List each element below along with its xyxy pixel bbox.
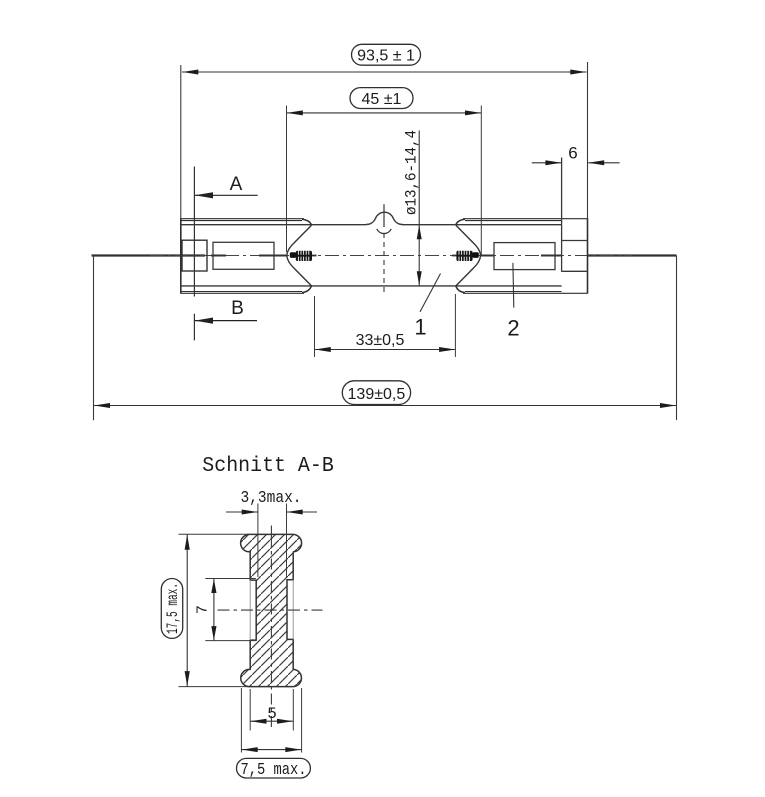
pump tip bump bbox=[366, 212, 403, 224]
svg-text:139±0,5: 139±0,5 bbox=[348, 386, 406, 403]
dim 45 ±1 bbox=[350, 88, 413, 109]
wire segment inner left 2 bbox=[259, 255, 287, 257]
svg-text:2: 2 bbox=[507, 316, 519, 341]
svg-text:ø13,6-14,4: ø13,6-14,4 bbox=[403, 130, 421, 215]
leader 1 bbox=[420, 274, 441, 312]
tube bottom edge bbox=[181, 285, 562, 287]
filament coil left bbox=[296, 250, 312, 262]
notch projection lines bbox=[249, 580, 251, 640]
right pinch V bbox=[456, 225, 481, 286]
left inner rectangle bbox=[213, 242, 274, 269]
svg-text:1: 1 bbox=[414, 315, 426, 340]
pump tip center tick bbox=[383, 204, 385, 227]
svg-text:7,5 max.: 7,5 max. bbox=[241, 761, 307, 780]
section line A-B bbox=[193, 167, 195, 297]
svg-text:5: 5 bbox=[267, 705, 277, 723]
svg-text:3,3max.: 3,3max. bbox=[241, 489, 302, 508]
tube top edge bbox=[181, 224, 366, 226]
wire segment coil out left bbox=[312, 255, 317, 257]
right inner rectangle bbox=[494, 243, 555, 270]
left pinch V bbox=[287, 225, 312, 286]
wire segment coil in right bbox=[452, 255, 457, 257]
dim 139±0,5 bbox=[342, 381, 410, 405]
pump tip arc below bbox=[377, 229, 391, 234]
wire segment inner right 1 bbox=[480, 255, 494, 257]
dim 93,5 ±1 bbox=[352, 44, 421, 65]
wire segment inner left 1 bbox=[211, 255, 226, 257]
right cap outline bbox=[587, 218, 589, 293]
svg-text:6: 6 bbox=[568, 144, 577, 163]
axis centerline bbox=[150, 255, 632, 257]
dim dia 13,6-14,4 bbox=[418, 131, 420, 286]
left end contact rectangle bbox=[182, 240, 207, 271]
dim 17,5 max. bbox=[161, 579, 182, 639]
right contact band line bbox=[561, 158, 563, 272]
svg-text:33±0,5: 33±0,5 bbox=[356, 332, 405, 349]
left cap outline bbox=[180, 218, 182, 293]
svg-text:7: 7 bbox=[195, 605, 212, 614]
foil blob left bbox=[290, 252, 296, 258]
glass cross-section profile with hatch bbox=[241, 534, 302, 686]
filament coil right bbox=[456, 250, 472, 262]
svg-text:45 ±1: 45 ±1 bbox=[362, 91, 402, 108]
section vertical centerline bbox=[270, 526, 272, 537]
svg-text:17,5 max.: 17,5 max. bbox=[164, 583, 182, 634]
wire segment inner right 2 bbox=[541, 255, 562, 257]
svg-text:A: A bbox=[230, 174, 243, 195]
leader 2 bbox=[512, 263, 515, 308]
wire lead left bbox=[92, 254, 206, 256]
section horizontal centerline bbox=[218, 609, 323, 611]
svg-text:B: B bbox=[231, 298, 244, 319]
svg-text:93,5 ± 1: 93,5 ± 1 bbox=[357, 48, 415, 65]
foil blob right bbox=[472, 252, 478, 258]
wire lead right bbox=[588, 254, 677, 256]
svg-text:Schnitt A-B: Schnitt A-B bbox=[202, 454, 334, 478]
dim 7,5 max. bbox=[237, 758, 311, 778]
